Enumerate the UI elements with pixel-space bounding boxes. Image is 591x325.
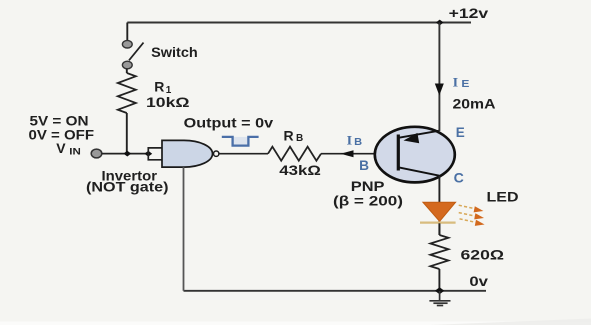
- wire switch to R1: [126, 69, 128, 73]
- svg-text:E: E: [456, 125, 465, 140]
- LED light arrow 1: [459, 205, 484, 212]
- svg-text:0v: 0v: [469, 273, 488, 289]
- svg-text:I: I: [453, 74, 459, 89]
- svg-text:V: V: [56, 140, 66, 156]
- svg-text:B: B: [354, 137, 362, 148]
- wire R1 to input node: [126, 113, 128, 154]
- wire bottom rail: [184, 290, 487, 292]
- terminal VIN: [91, 149, 102, 158]
- svg-text:Output = 0v: Output = 0v: [184, 115, 274, 131]
- LED light arrow 3: [460, 219, 485, 226]
- wire LED to R620: [438, 223, 440, 235]
- inverter gate U1 body: [162, 140, 213, 167]
- switch lever: [129, 43, 144, 61]
- resistor 620 zigzag: [430, 235, 448, 269]
- LED light arrow 2: [459, 213, 484, 220]
- wire VIN to gate: [102, 153, 149, 155]
- node gate input junction: [144, 151, 152, 157]
- wire gate output to RB: [219, 153, 268, 155]
- transistor emitter line: [398, 131, 439, 138]
- transistor Q1 body: [375, 127, 455, 183]
- svg-text:(β = 200): (β = 200): [333, 192, 403, 208]
- wire gate to bottom rail: [183, 167, 185, 291]
- LED D1 triangle: [423, 202, 456, 221]
- waveform pulse fill: [233, 137, 249, 146]
- node R1 input junction: [123, 151, 131, 157]
- svg-text:10kΩ: 10kΩ: [146, 94, 190, 110]
- svg-text:20mA: 20mA: [453, 95, 496, 111]
- wire R620 to ground rail: [438, 269, 440, 291]
- svg-text:43kΩ: 43kΩ: [279, 162, 321, 178]
- svg-text:620Ω: 620Ω: [461, 246, 505, 262]
- svg-text:E: E: [461, 79, 469, 90]
- switch terminal bottom: [122, 61, 132, 69]
- svg-text:LED: LED: [487, 188, 519, 204]
- wire collector down to LED: [438, 176, 440, 235]
- resistor RB 43k zigzag: [268, 147, 321, 161]
- ground symbol: [429, 291, 450, 306]
- svg-text:C: C: [454, 170, 464, 185]
- node ground junction: [435, 287, 444, 294]
- transistor base bar: [397, 135, 400, 171]
- wire from top rail to switch: [126, 23, 128, 41]
- current arrow IB: [341, 150, 354, 157]
- wire RB to base: [321, 153, 398, 155]
- svg-text:B: B: [359, 158, 369, 173]
- transistor emitter arrow (PNP): [404, 133, 420, 143]
- resistor R1 10k zigzag: [118, 73, 136, 113]
- wire +12v rail down to emitter: [438, 23, 440, 132]
- waveform pulse: [222, 137, 259, 146]
- svg-text:B: B: [296, 133, 303, 144]
- inverter output bubble: [214, 151, 219, 156]
- switch terminal top: [122, 40, 132, 48]
- wire gate input bracket: [148, 148, 162, 160]
- svg-text:Switch: Switch: [151, 44, 198, 60]
- svg-text:(NOT gate): (NOT gate): [86, 179, 169, 195]
- wire top rail: [127, 22, 471, 24]
- svg-text:IN: IN: [69, 147, 81, 158]
- svg-text:I: I: [347, 133, 353, 148]
- current arrow IE: [435, 84, 444, 96]
- svg-text:R: R: [154, 78, 164, 94]
- LED cathode bar: [420, 222, 456, 224]
- svg-text:R: R: [284, 127, 294, 143]
- svg-text:+12v: +12v: [449, 5, 489, 21]
- transistor collector line: [398, 167, 439, 175]
- node +12v junction: [436, 20, 444, 26]
